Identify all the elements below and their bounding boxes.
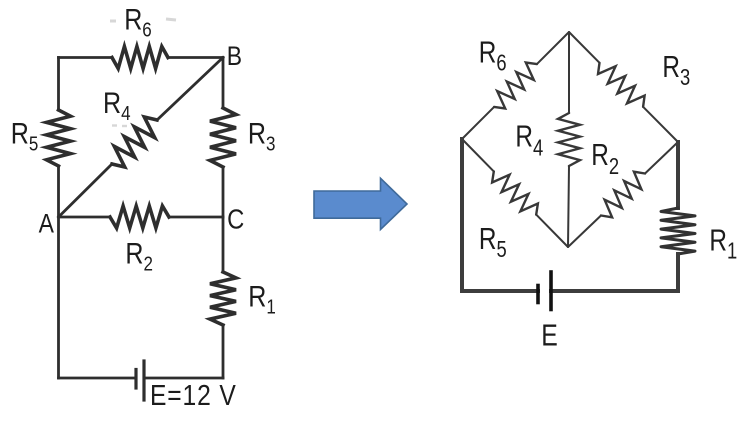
- wire node A to R4 diagonal: [59, 164, 113, 217]
- resistor R2: [601, 172, 645, 218]
- resistor R5: [47, 110, 71, 166]
- label R2 right: [591, 137, 619, 179]
- svg-text:E=12 V: E=12 V: [150, 379, 237, 411]
- resistor R6: [494, 63, 537, 109]
- wire node C to R1: [222, 217, 225, 272]
- wire top vertex to R4: [568, 32, 570, 113]
- label R6 right: [479, 35, 507, 76]
- wire R5 to bottom vertex: [536, 215, 568, 247]
- resistor R1 coil: [661, 208, 695, 254]
- label E = 12 V: [150, 379, 237, 411]
- wire R4 to node B diagonal: [157, 58, 223, 121]
- resistor R1: [210, 272, 236, 325]
- node label C: [227, 203, 244, 235]
- battery E=12V long plate: [142, 361, 145, 400]
- wire top vertex to R3: [569, 32, 600, 63]
- wire top vertex to R6: [537, 32, 569, 64]
- label R3 right: [662, 49, 690, 90]
- label R4 right: [515, 119, 543, 161]
- resistor R4: [558, 113, 580, 166]
- wire right outer upper: [676, 142, 680, 208]
- svg-text:A: A: [39, 209, 55, 239]
- wire R3 to node C: [222, 167, 225, 217]
- wire R2 to bottom vertex: [568, 216, 601, 248]
- label R1 right: [709, 223, 737, 264]
- wire top-left corner to R6: [59, 56, 113, 59]
- wire R2 to node C: [169, 216, 223, 219]
- node label B: [227, 41, 242, 71]
- label R5: [11, 117, 39, 155]
- wire node B to R3: [222, 58, 225, 109]
- battery E short plate: [536, 286, 540, 303]
- wire bottom left segment: [59, 377, 137, 380]
- resistor R6: [112, 47, 168, 69]
- label R2: [125, 237, 153, 275]
- wire bottom left segment: [462, 289, 538, 293]
- resistor R4: [112, 117, 157, 167]
- wire R3 to right vertex: [643, 107, 678, 142]
- wire left side R5 to bottom-left corner: [57, 166, 60, 378]
- wire bottom right segment: [144, 377, 223, 380]
- wire R6 to node B: [168, 56, 223, 59]
- wire R4 to bottom vertex: [568, 166, 569, 247]
- resistor R3: [598, 63, 645, 107]
- label R6: [124, 3, 152, 41]
- label R5 right: [479, 221, 507, 262]
- node label A: [39, 209, 55, 239]
- wire right outer lower: [676, 254, 680, 291]
- label R3: [248, 117, 276, 155]
- wire bottom right segment: [551, 289, 678, 293]
- wire left outer: [460, 139, 464, 291]
- wire right vertex to R2: [645, 142, 678, 174]
- svg-text:E: E: [541, 318, 558, 352]
- resistor R3: [210, 108, 236, 167]
- wire left side top: [57, 58, 60, 111]
- battery E=12V short plate: [134, 370, 137, 389]
- svg-text:B: B: [227, 41, 242, 71]
- resistor R5: [492, 171, 538, 214]
- label R1: [248, 279, 276, 317]
- svg-text:C: C: [227, 203, 244, 235]
- scan artifact dashes: [110, 19, 176, 126]
- arrow: [314, 178, 407, 229]
- battery E long plate: [549, 272, 553, 310]
- label E right: [541, 318, 558, 352]
- wire left vertex to R5: [462, 139, 494, 171]
- wire R1 to bottom-right corner: [222, 325, 225, 378]
- label R4: [103, 86, 131, 124]
- wire node A to R2: [59, 216, 111, 219]
- wire R6 to left vertex: [462, 107, 494, 139]
- resistor R2: [110, 206, 169, 228]
